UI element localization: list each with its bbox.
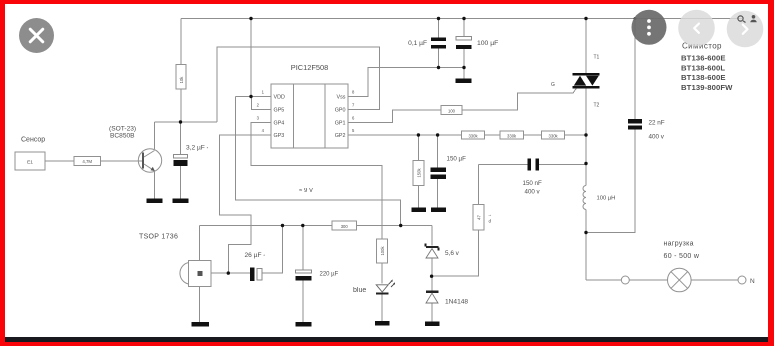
svg-text:Сенсор: Сенсор xyxy=(21,137,45,144)
wire: diode to ground xyxy=(431,303,433,321)
wire: resistor to base xyxy=(101,160,143,162)
wire: film cap line xyxy=(478,164,527,166)
wire: GP4 to LED branch xyxy=(251,123,382,240)
svg-text:≈ 9 V: ≈ 9 V xyxy=(299,188,313,194)
svg-text:GP0: GP0 xyxy=(335,108,346,114)
svg-text:100 µH: 100 µH xyxy=(597,196,616,202)
wire: 22nF branch bottom xyxy=(586,130,635,233)
UI prev button xyxy=(678,10,715,47)
svg-text:150k: 150k xyxy=(417,168,422,178)
svg-text:BT138-600L: BT138-600L xyxy=(681,63,725,72)
wire: sensor to resistor xyxy=(45,160,74,162)
ground (LED) xyxy=(375,321,390,325)
wire: TSOP vcc xyxy=(199,226,201,261)
resistor 4,7M xyxy=(74,157,101,166)
dropper resistor box xyxy=(473,205,484,230)
resistor 330k b xyxy=(500,131,524,139)
wire: Vss stub to ground line xyxy=(348,68,464,97)
op-amp U1 PIC12F508 body xyxy=(271,84,348,148)
svg-text:26 µF *: 26 µF * xyxy=(245,252,266,259)
wire: LED resistor to LED xyxy=(381,263,383,284)
wire: rail drop to R1 xyxy=(180,19,182,66)
svg-text:GP5: GP5 xyxy=(274,108,285,114)
resistor R1 pull-up xyxy=(176,65,186,90)
UI small search icon xyxy=(738,16,746,23)
wire: 0.1uF bottom xyxy=(438,49,440,68)
wire: emitter down xyxy=(154,172,156,199)
svg-text:TSOP 1736: TSOP 1736 xyxy=(139,234,178,241)
svg-text:400 v: 400 v xyxy=(649,134,665,141)
svg-text:100 µF: 100 µF xyxy=(477,40,498,47)
ground (150k) xyxy=(412,208,427,212)
ground (emitter) xyxy=(147,199,163,203)
svg-text:4,7M: 4,7M xyxy=(82,159,92,164)
wire: inductor to lamp line xyxy=(585,210,587,281)
transistor Q1 BC850B xyxy=(138,149,161,172)
wire: lamp line right xyxy=(691,279,738,281)
wire: VDD feed from rail xyxy=(250,19,252,97)
svg-text:0,1 µF: 0,1 µF xyxy=(408,40,427,47)
svg-text:400 v: 400 v xyxy=(525,189,541,196)
svg-text:VDD: VDD xyxy=(274,95,285,101)
svg-text:BT139-800FW: BT139-800FW xyxy=(681,83,733,92)
svg-text:GP1: GP1 xyxy=(335,121,346,127)
svg-text:150 µF: 150 µF xyxy=(447,156,467,163)
diode 1N4148 xyxy=(426,291,439,303)
svg-text:330k: 330k xyxy=(549,133,559,138)
wire: LED to ground xyxy=(381,294,383,322)
IR receiver TSOP1736 xyxy=(180,261,211,287)
svg-text:PIC12F508: PIC12F508 xyxy=(291,63,328,72)
svg-text:150 nF: 150 nF xyxy=(523,180,542,187)
wire: TSOP gnd xyxy=(199,286,201,322)
svg-text:47: 47 xyxy=(476,215,481,220)
svg-text:blue: blue xyxy=(353,287,366,294)
svg-text:d: d xyxy=(489,219,492,224)
wire: triac T2 down xyxy=(585,88,587,186)
wire: sensor riser to GP0 line xyxy=(217,47,380,122)
wire: 100uF top xyxy=(463,19,465,37)
sensor plate E1 xyxy=(15,152,45,170)
svg-text:1N4148: 1N4148 xyxy=(445,299,468,306)
svg-text:нагрузка: нагрузка xyxy=(664,241,694,248)
LED blue xyxy=(376,279,395,294)
terminal circle left xyxy=(621,276,629,284)
ground (3.2uF) xyxy=(173,199,189,203)
wire: pin1 stub xyxy=(236,96,271,98)
zener diode 5,6v xyxy=(425,243,440,258)
wire: 150k to ground xyxy=(417,185,419,207)
wire: 0.1uF top xyxy=(438,19,440,39)
svg-text:330k: 330k xyxy=(468,133,478,138)
capacitor 22nF xyxy=(628,119,642,123)
wire: gate resistor to triac gate xyxy=(462,88,576,110)
UI kebab menu xyxy=(632,10,667,45)
svg-text:T1: T1 xyxy=(594,55,600,61)
wire: GP1 to gate resistor xyxy=(348,110,441,123)
svg-text:GP3: GP3 xyxy=(274,133,285,139)
wire: dropper resistor bottom xyxy=(432,230,479,276)
svg-text:E1: E1 xyxy=(27,159,33,165)
UI next button xyxy=(727,11,764,48)
svg-text:Vss: Vss xyxy=(337,95,346,101)
svg-text:100k: 100k xyxy=(380,246,385,256)
wire: rail into zener xyxy=(431,226,433,246)
ground (150uF) xyxy=(431,208,446,212)
wire: collector up xyxy=(154,122,156,149)
svg-text:100: 100 xyxy=(448,108,456,113)
wire: VDD to lower rail xyxy=(236,97,401,226)
terminal circle right N xyxy=(738,276,746,284)
wire: lamp line left xyxy=(586,279,621,281)
wire: triac T1 to rail xyxy=(585,19,587,74)
ground (TSOP) xyxy=(192,322,210,326)
wire: 26uF to rail riser xyxy=(262,226,283,274)
capacitor 26uF xyxy=(250,268,255,282)
wire: 150uF branch xyxy=(437,135,439,167)
svg-text:BT136-600E: BT136-600E xyxy=(681,54,726,63)
svg-text:220 µF: 220 µF xyxy=(320,272,339,278)
svg-text:300: 300 xyxy=(341,224,349,229)
lamp xyxy=(668,268,692,292)
svg-text:GP2: GP2 xyxy=(335,133,346,139)
capacitor 220uF xyxy=(296,270,312,273)
svg-text:(SOT-23): (SOT-23) xyxy=(109,126,136,133)
svg-text:BT138-600E: BT138-600E xyxy=(681,73,726,82)
UI close button xyxy=(19,18,54,53)
svg-text:5,6 v: 5,6 v xyxy=(445,250,460,257)
wire: GP3 to TSOP out xyxy=(220,135,271,273)
resistor 100k LED xyxy=(376,239,387,263)
black strip at bottom xyxy=(5,337,768,342)
resistor 150k xyxy=(413,161,424,186)
capacitor 150uF xyxy=(431,168,447,172)
svg-text:→: → xyxy=(488,212,493,217)
ground (100uF) xyxy=(456,79,472,83)
wire: dropper resistor top xyxy=(477,165,479,205)
ground (220uF) xyxy=(296,322,312,326)
svg-text:BC850B: BC850B xyxy=(110,133,135,140)
wire: 220uF to ground xyxy=(302,281,304,322)
wire: R1 to collector node xyxy=(180,89,182,122)
wire: 100uF bottom to ground xyxy=(463,49,465,79)
wire: collector node horizontal xyxy=(155,121,218,123)
wire: 220uF riser xyxy=(302,226,304,270)
wire: zener to diode xyxy=(431,258,433,291)
svg-text:330k: 330k xyxy=(507,133,517,138)
wire: 150uF to ground xyxy=(437,179,439,208)
svg-text:N: N xyxy=(750,278,755,285)
UI small user icon xyxy=(750,15,756,22)
resistor 330k c xyxy=(542,131,565,139)
resistor 330k a xyxy=(461,131,484,139)
wire: 3.2uF top xyxy=(180,122,182,155)
svg-text:60 - 500 w: 60 - 500 w xyxy=(664,253,700,260)
wire: top rail xyxy=(181,18,742,20)
triac T1/T2 xyxy=(573,73,600,88)
svg-text:3,2 µF *: 3,2 µF * xyxy=(186,145,209,152)
capacitor 0,1uF xyxy=(431,38,446,41)
wire: film cap to triac line xyxy=(539,164,586,166)
svg-text:G: G xyxy=(551,82,555,88)
resistor low rail 300 xyxy=(332,221,357,230)
capacitor 3,2uF xyxy=(174,155,188,159)
wire: low rail xyxy=(200,225,432,227)
wire: TSOP out xyxy=(211,272,250,274)
inductor L1 xyxy=(583,186,586,210)
wire: 22nF branch top xyxy=(634,19,636,120)
ground (diodes) xyxy=(425,322,440,326)
svg-text:10k: 10k xyxy=(179,76,184,84)
svg-text:T2: T2 xyxy=(594,103,600,109)
svg-text:GP4: GP4 xyxy=(274,121,285,127)
wire: lamp line middle xyxy=(629,279,667,281)
capacitor 100uF xyxy=(456,37,472,41)
film capacitor 150nF xyxy=(528,159,532,171)
wire: GP2 sense line xyxy=(348,134,586,136)
svg-text:22 nF: 22 nF xyxy=(649,120,665,127)
wire: 150k branch xyxy=(417,135,419,161)
wire: 3.2uF bottom xyxy=(180,166,182,199)
wire: pin2 link xyxy=(251,97,271,110)
resistor gate 100 xyxy=(441,105,462,114)
